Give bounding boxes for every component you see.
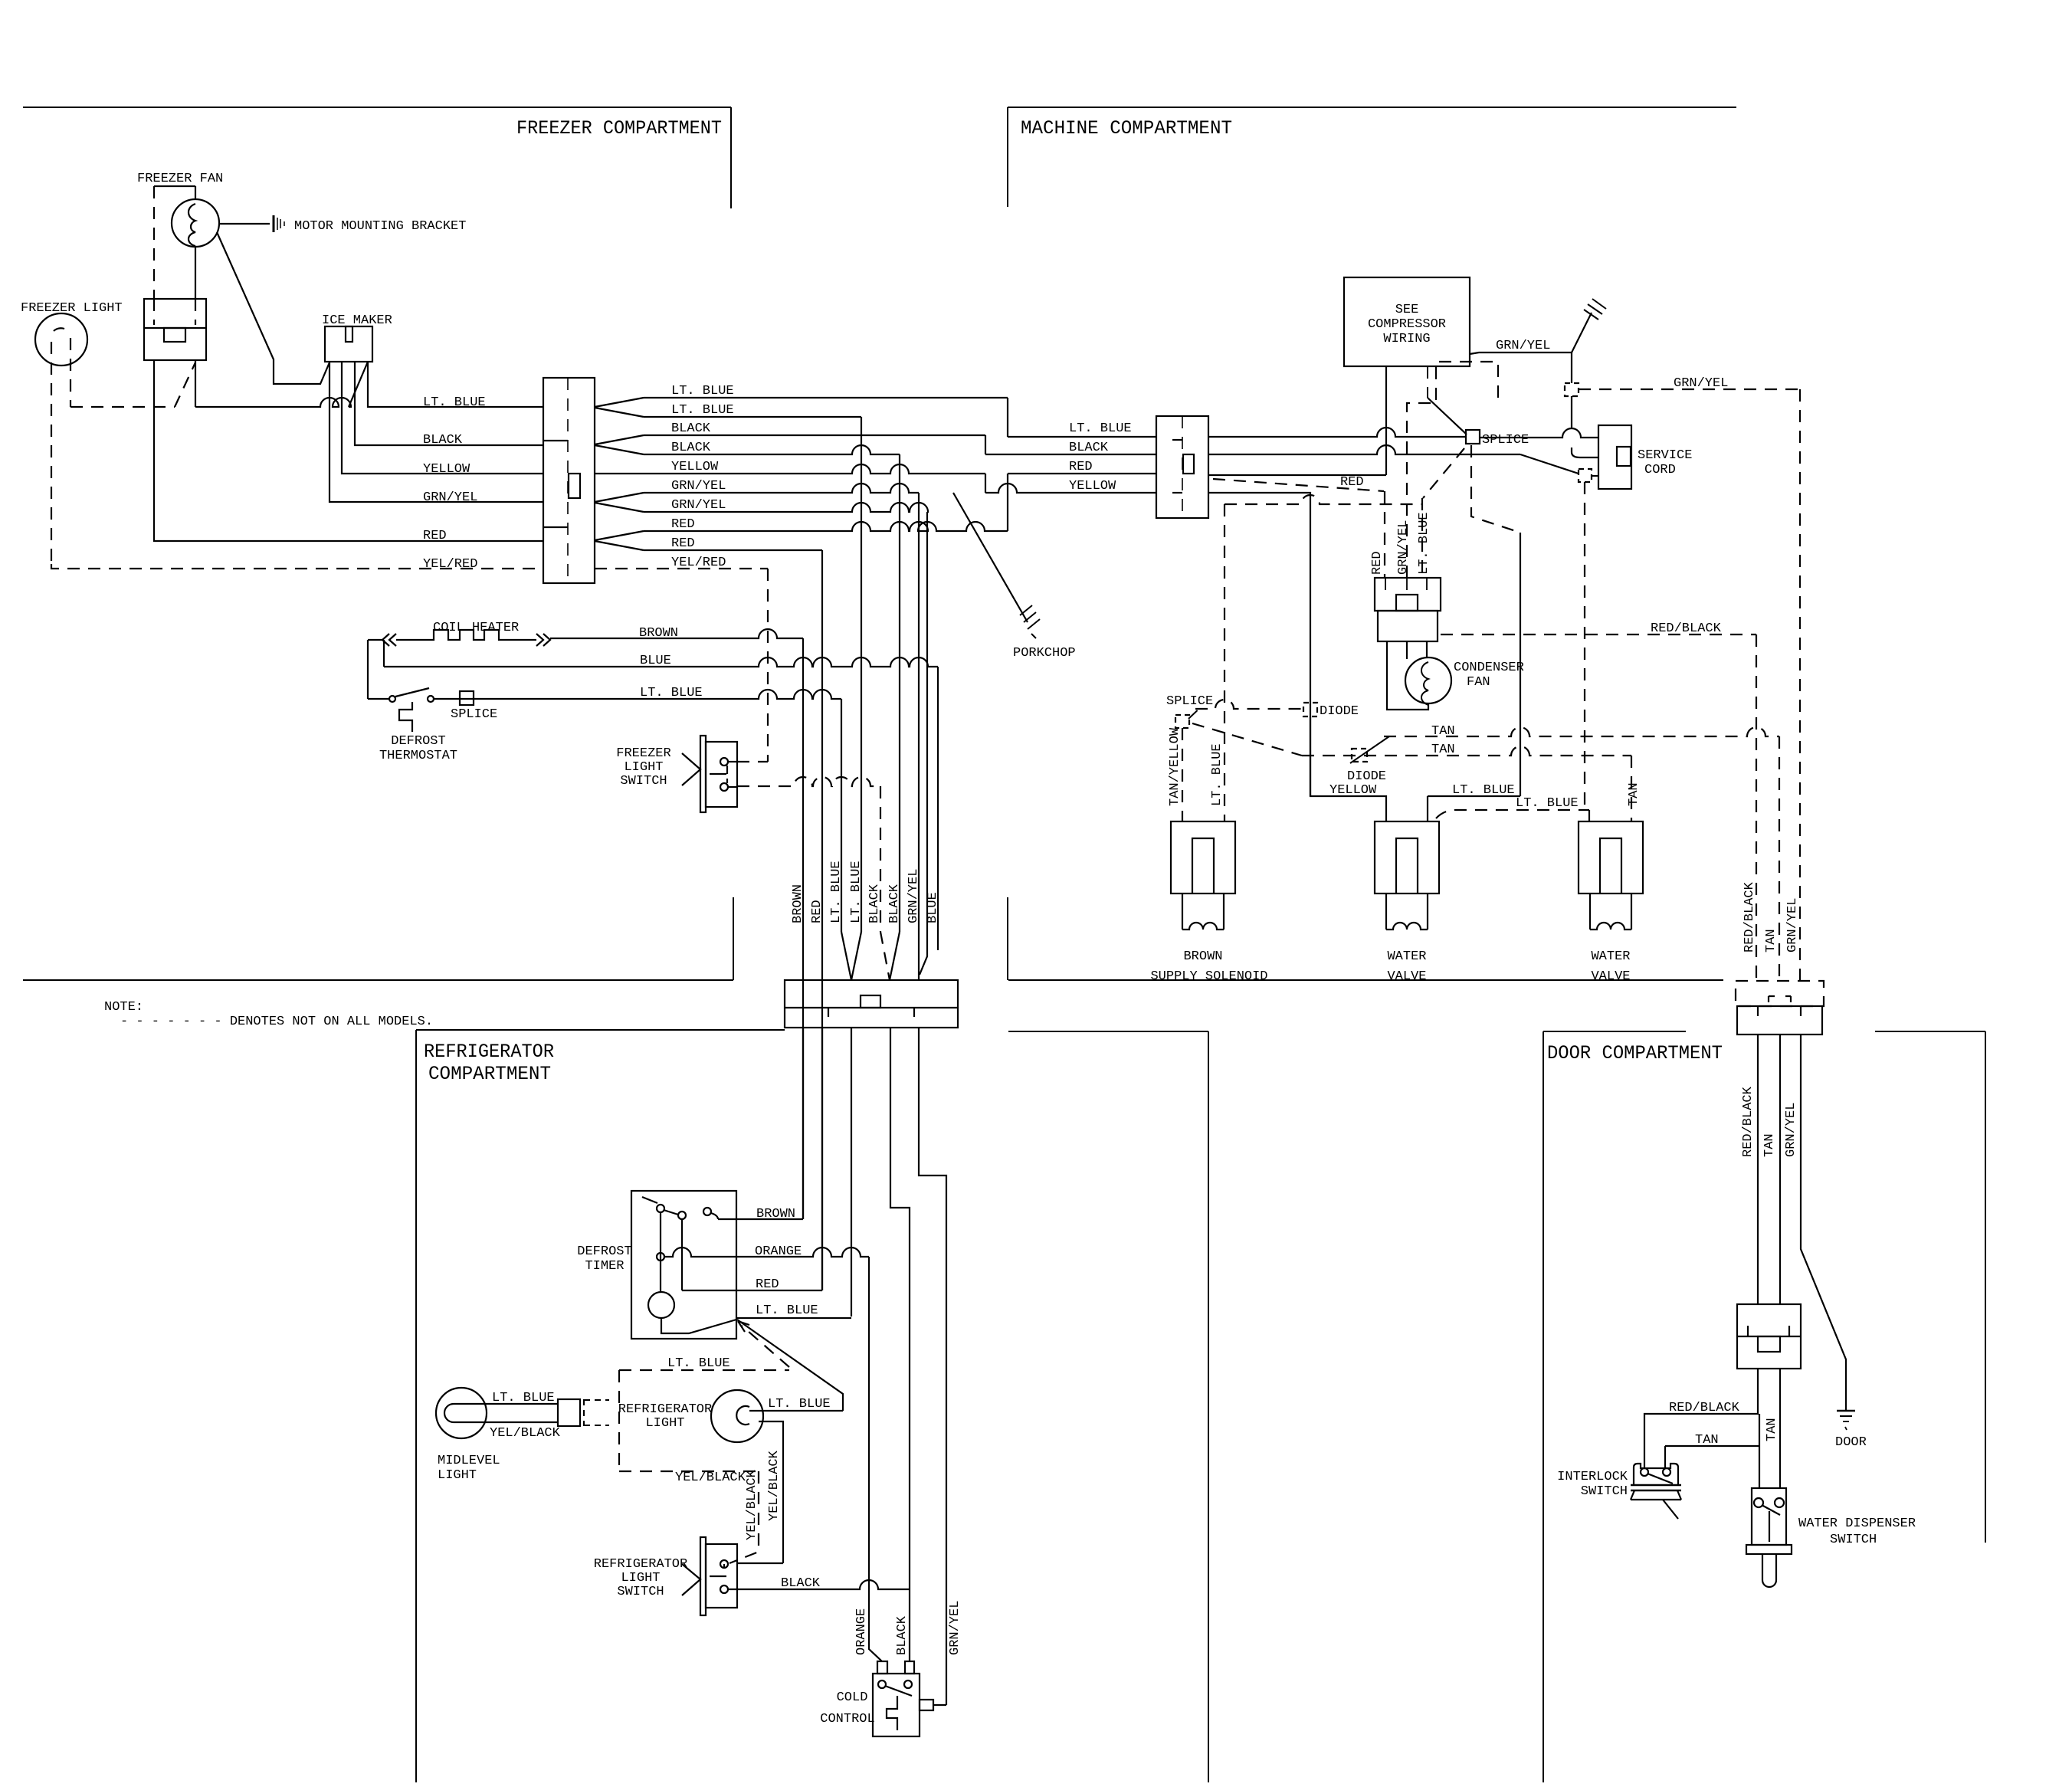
- svg-text:LIGHT: LIGHT: [438, 1468, 477, 1483]
- svg-text:YEL/BLACK: YEL/BLACK: [745, 1469, 759, 1540]
- wire compressor diagonal to splice: [1427, 366, 1428, 398]
- svg-text:MIDLEVEL: MIDLEVEL: [438, 1454, 500, 1468]
- defrost thermostat: [389, 696, 395, 702]
- door ground: [1837, 1410, 1855, 1412]
- wire yel/red dashed: [51, 564, 543, 569]
- svg-text:SWITCH: SWITCH: [617, 1585, 664, 1599]
- svg-text:RED: RED: [671, 517, 695, 532]
- wire yel/red to switch: [737, 761, 768, 762]
- svg-text:ORANGE: ORANGE: [755, 1244, 802, 1259]
- wire blue vertical: [937, 667, 939, 950]
- svg-text:DOOR COMPARTMENT: DOOR COMPARTMENT: [1547, 1042, 1723, 1064]
- wire compressor to red: [1385, 366, 1387, 475]
- wire grn/yel cold control: [933, 1704, 946, 1706]
- wire red/black door: [1757, 1034, 1759, 1304]
- wire black below: [890, 1028, 910, 1589]
- wire lt blue below: [851, 1028, 852, 1316]
- water valve 1: [1375, 821, 1439, 893]
- condenser fan: [1405, 657, 1451, 703]
- wire tan 1: [1384, 727, 1779, 736]
- wire grn/yel to service cord: [1572, 396, 1598, 457]
- svg-text:YEL/RED: YEL/RED: [671, 556, 726, 570]
- compressor relay: [1375, 578, 1441, 611]
- svg-text:CONDENSER: CONDENSER: [1454, 661, 1524, 675]
- svg-text:THERMOSTAT: THERMOSTAT: [379, 749, 457, 763]
- wire tan/yellow solenoid: [1182, 728, 1183, 821]
- wire grn/yel compressor: [1470, 352, 1572, 383]
- svg-text:TAN: TAN: [1431, 724, 1455, 739]
- ice maker pin 4 wire lt blue: [368, 362, 543, 407]
- svg-text:TAN: TAN: [1764, 929, 1779, 953]
- freezer fan wires top: [154, 185, 195, 187]
- wire red 2 vertical: [821, 550, 823, 1290]
- connector refrigerator harness: [785, 980, 958, 1028]
- refrigerator light switch: [700, 1537, 706, 1615]
- connector door 2: [1737, 1304, 1801, 1369]
- svg-text:RED/BLACK: RED/BLACK: [1651, 621, 1722, 636]
- wire yel/black into switch: [737, 1562, 783, 1564]
- svg-text:GRN/YEL: GRN/YEL: [1785, 898, 1800, 953]
- svg-text:RED: RED: [810, 900, 825, 923]
- svg-text:RED: RED: [671, 536, 695, 551]
- wire red pair merge: [595, 531, 644, 550]
- wire lt blue 2: [644, 416, 861, 418]
- svg-text:TIMER: TIMER: [585, 1259, 624, 1274]
- svg-text:DOOR: DOOR: [1835, 1435, 1867, 1450]
- wire grn/yel 1 vertical: [918, 493, 920, 980]
- svg-text:VALVE: VALVE: [1387, 969, 1426, 984]
- svg-text:SPLICE: SPLICE: [451, 707, 497, 722]
- wire lt blue valves: [1471, 445, 1520, 533]
- wire lt blue to light: [737, 1320, 843, 1411]
- wire black machine: [1208, 445, 1520, 454]
- wire black 2: [644, 445, 900, 454]
- refrigerator compartment border: [416, 1029, 785, 1031]
- ice maker pin 3 wire black: [355, 362, 543, 445]
- wire yellow to valve: [1310, 716, 1386, 821]
- wire grn/yel 2: [644, 503, 928, 512]
- wire grn/yel door: [1801, 1034, 1846, 1411]
- svg-text:GRN/YEL: GRN/YEL: [1396, 520, 1411, 575]
- wire black cold control: [909, 1589, 910, 1661]
- svg-text:SWITCH: SWITCH: [620, 774, 667, 789]
- wire lt blue thermostat: [368, 698, 389, 700]
- svg-text:SPLICE: SPLICE: [1482, 433, 1529, 448]
- svg-text:WATER: WATER: [1387, 949, 1426, 964]
- svg-text:BROWN: BROWN: [791, 884, 805, 923]
- svg-text:GRN/YEL: GRN/YEL: [1496, 339, 1550, 353]
- svg-text:GRN/YEL: GRN/YEL: [906, 869, 921, 923]
- svg-text:FAN: FAN: [1467, 675, 1490, 690]
- svg-text:WATER: WATER: [1591, 949, 1630, 964]
- wire red 1: [644, 522, 1008, 531]
- svg-text:LT. BLUE: LT. BLUE: [849, 861, 864, 923]
- wire red below: [821, 1028, 823, 1290]
- svg-text:WATER DISPENSER: WATER DISPENSER: [1798, 1516, 1916, 1531]
- splice machine: [1466, 430, 1480, 444]
- svg-text:DEFROST: DEFROST: [577, 1244, 631, 1259]
- svg-text:BLACK: BLACK: [1069, 441, 1109, 455]
- midlevel light: [436, 1388, 487, 1438]
- svg-text:LT. BLUE: LT. BLUE: [423, 395, 486, 410]
- svg-text:VALVE: VALVE: [1591, 969, 1630, 984]
- svg-text:LT. BLUE: LT. BLUE: [768, 1397, 831, 1412]
- wire grn/yel 1: [644, 484, 919, 493]
- svg-text:COIL HEATER: COIL HEATER: [433, 621, 519, 635]
- svg-text:GRN/YEL: GRN/YEL: [1674, 376, 1728, 391]
- svg-text:LT. BLUE: LT. BLUE: [1452, 783, 1515, 798]
- wire black switch: [728, 1580, 910, 1589]
- wire tan 2: [1302, 746, 1631, 756]
- wire yel/red right: [595, 568, 768, 569]
- machine compartment border: [1008, 107, 1736, 108]
- svg-text:GRN/YEL: GRN/YEL: [948, 1601, 962, 1655]
- svg-text:COMPARTMENT: COMPARTMENT: [428, 1063, 551, 1085]
- splice grn/yel: [1565, 383, 1579, 396]
- wire brown timer: [718, 1218, 803, 1220]
- svg-text:RED: RED: [423, 529, 447, 543]
- freezer fan connector: [144, 299, 206, 360]
- wire red/black to interlock: [1644, 1369, 1758, 1468]
- freezer light switch: [700, 736, 706, 812]
- svg-text:RED: RED: [1370, 551, 1385, 575]
- timer contact 1: [657, 1205, 664, 1212]
- wire black dashed from switch: [737, 777, 880, 786]
- svg-text:COLD: COLD: [837, 1690, 868, 1705]
- midlevel light connector: [558, 1399, 580, 1426]
- timer orange contact: [657, 1253, 664, 1261]
- svg-text:DIODE: DIODE: [1320, 704, 1359, 719]
- svg-text:GRN/YEL: GRN/YEL: [1784, 1103, 1798, 1157]
- svg-text:SUPPLY SOLENOID: SUPPLY SOLENOID: [1150, 969, 1267, 984]
- refrigerator light switch pointer: [682, 1564, 700, 1595]
- svg-text:LIGHT: LIGHT: [624, 760, 663, 775]
- wire grn/yel below: [919, 1028, 946, 1705]
- svg-text:SERVICE: SERVICE: [1638, 448, 1692, 463]
- wire lt blue pair merge: [595, 398, 644, 417]
- wire dashed splice2 diagonal: [1192, 723, 1302, 756]
- diode 1: [1303, 703, 1317, 716]
- wire lt blue light: [749, 1410, 843, 1412]
- wire lt blue dashed compressor: [1423, 448, 1464, 498]
- svg-text:RED: RED: [1340, 475, 1364, 490]
- svg-text:TAN/YELLOW: TAN/YELLOW: [1168, 727, 1182, 806]
- wire black 1: [644, 434, 985, 436]
- svg-text:TAN: TAN: [1627, 782, 1641, 806]
- svg-text:TAN: TAN: [1765, 1418, 1779, 1441]
- svg-text:YELLOW: YELLOW: [423, 462, 470, 477]
- svg-text:SPLICE: SPLICE: [1166, 694, 1213, 709]
- svg-text:YEL/BLACK: YEL/BLACK: [675, 1471, 746, 1485]
- wire brown below: [802, 1028, 804, 1219]
- wire yel/red vertical to switch: [767, 569, 769, 762]
- svg-text:RED: RED: [756, 1277, 779, 1292]
- svg-text:MACHINE COMPARTMENT: MACHINE COMPARTMENT: [1021, 117, 1232, 139]
- svg-text:LT. BLUE: LT. BLUE: [756, 1303, 818, 1318]
- svg-text:BROWN: BROWN: [639, 626, 678, 641]
- ground symbol grn/yel: [1572, 313, 1592, 352]
- wire lt blue dashed to solenoid: [1225, 495, 1422, 504]
- ice maker: [325, 326, 372, 362]
- svg-text:YEL/BLACK: YEL/BLACK: [490, 1426, 561, 1441]
- wire tan door: [1779, 1034, 1781, 1304]
- svg-text:LT. BLUE: LT. BLUE: [1417, 512, 1431, 575]
- wire lt blue 2 vertical: [861, 417, 862, 932]
- svg-text:FREEZER LIGHT: FREEZER LIGHT: [21, 301, 123, 316]
- cold control grn/yel stub: [920, 1700, 933, 1710]
- diode 2: [1352, 749, 1367, 762]
- connector machine harness: [1156, 416, 1208, 518]
- svg-text:REFRIGERATOR: REFRIGERATOR: [424, 1041, 554, 1063]
- svg-text:REFRIGERATOR: REFRIGERATOR: [618, 1402, 712, 1417]
- splice 2: [1175, 715, 1189, 728]
- wire red timer: [681, 1219, 683, 1290]
- svg-text:LT. BLUE: LT. BLUE: [1210, 743, 1225, 806]
- svg-text:CONTROL: CONTROL: [820, 1712, 874, 1726]
- wire lt blue machine: [1208, 428, 1466, 437]
- wire lt blue vertical: [841, 699, 842, 932]
- machine compartment bottom border: [1008, 979, 1723, 981]
- svg-text:BLACK: BLACK: [671, 421, 711, 436]
- svg-text:YEL/RED: YEL/RED: [423, 557, 477, 572]
- wire black pair merge: [595, 435, 644, 454]
- wire freezer fan red: [154, 360, 543, 541]
- connector door harness: [1736, 981, 1824, 1006]
- svg-text:MOTOR MOUNTING BRACKET: MOTOR MOUNTING BRACKET: [294, 219, 466, 234]
- freezer light wires: [51, 342, 52, 564]
- wire black 2 vertical: [899, 454, 900, 932]
- svg-text:- - - - - - - DENOTES NOT ON A: - - - - - - - DENOTES NOT ON ALL MODELS.: [120, 1015, 433, 1029]
- wire black conn1-2: [985, 454, 1156, 455]
- wire yel/black dashed: [619, 1471, 759, 1472]
- svg-text:PORKCHOP: PORKCHOP: [1013, 646, 1076, 661]
- condenser fan wires: [1387, 641, 1428, 710]
- svg-text:LT. BLUE: LT. BLUE: [829, 861, 844, 923]
- svg-text:LT. BLUE: LT. BLUE: [667, 1356, 730, 1371]
- svg-text:BLACK: BLACK: [887, 884, 902, 923]
- svg-text:LT. BLUE: LT. BLUE: [1516, 796, 1579, 811]
- wire yellow: [595, 464, 985, 474]
- ice maker pin 1 wire grn/yel: [329, 362, 543, 502]
- wire yel/black solid: [759, 1421, 783, 1563]
- wire lt blue dashed valve2: [1436, 810, 1589, 818]
- wire fan to ice maker: [217, 232, 329, 384]
- svg-text:RED/BLACK: RED/BLACK: [1741, 1086, 1756, 1157]
- wire freezer fan lt blue: [195, 360, 196, 407]
- svg-text:BLACK: BLACK: [867, 884, 882, 923]
- wire orange: [664, 1248, 869, 1257]
- svg-text:LT. BLUE: LT. BLUE: [671, 403, 734, 418]
- svg-text:DEFROST: DEFROST: [391, 734, 445, 749]
- svg-text:NOTE:: NOTE:: [104, 1000, 143, 1015]
- svg-text:SWITCH: SWITCH: [1830, 1533, 1877, 1547]
- timer contact 2: [678, 1212, 686, 1219]
- refrigerator light: [711, 1390, 763, 1442]
- motor mounting bracket: [219, 223, 270, 225]
- svg-text:BLACK: BLACK: [895, 1615, 910, 1655]
- wire red dashed branch: [1213, 479, 1384, 491]
- wire tan interlock: [1665, 1414, 1759, 1488]
- wire lt blue to service cord: [1480, 428, 1598, 438]
- svg-text:YELLOW: YELLOW: [671, 460, 719, 474]
- heater left end: [367, 640, 369, 699]
- splice service black: [1579, 469, 1592, 482]
- wire black converge: [880, 932, 890, 980]
- wire grn/yel dashed to door: [1579, 389, 1800, 390]
- svg-text:YELLOW: YELLOW: [1329, 783, 1377, 798]
- svg-text:BLACK: BLACK: [781, 1576, 821, 1591]
- brown supply solenoid: [1171, 821, 1235, 893]
- connector freezer harness: [543, 378, 595, 583]
- coil heater: [368, 639, 382, 641]
- svg-text:BROWN: BROWN: [1183, 949, 1222, 964]
- svg-text:RED/BLACK: RED/BLACK: [1669, 1401, 1740, 1415]
- svg-text:BLACK: BLACK: [671, 441, 711, 455]
- svg-text:LIGHT: LIGHT: [645, 1416, 684, 1431]
- wire brown heater: [550, 629, 803, 638]
- defrost timer: [631, 1191, 736, 1339]
- svg-text:FREEZER: FREEZER: [616, 746, 670, 761]
- wire tan dispenser: [1779, 1369, 1781, 1488]
- svg-text:YEL/BLACK: YEL/BLACK: [767, 1450, 782, 1521]
- svg-text:LT. BLUE: LT. BLUE: [640, 686, 703, 700]
- freezer compartment border: [23, 107, 731, 108]
- svg-text:GRN/YEL: GRN/YEL: [671, 498, 726, 513]
- svg-text:GRN/YEL: GRN/YEL: [671, 479, 726, 493]
- svg-text:GRN/YEL: GRN/YEL: [423, 490, 477, 505]
- wire lt blue timer: [736, 1317, 851, 1319]
- svg-text:TAN: TAN: [1695, 1433, 1719, 1448]
- svg-text:INTERLOCK: INTERLOCK: [1557, 1470, 1628, 1484]
- freezer fan motor: [172, 199, 219, 247]
- wire lt blue converge: [841, 932, 861, 980]
- water dispenser switch: [1752, 1488, 1786, 1545]
- splice freezer: [460, 691, 474, 705]
- svg-text:BLUE: BLUE: [926, 892, 940, 923]
- freezer light switch pointer: [682, 753, 700, 785]
- wire dashed splice to diode: [1195, 700, 1303, 709]
- door compartment border: [1543, 1031, 1686, 1032]
- timer contact 3: [703, 1208, 711, 1215]
- svg-text:CORD: CORD: [1644, 463, 1676, 477]
- freezer light: [35, 313, 87, 366]
- svg-text:SWITCH: SWITCH: [1581, 1484, 1628, 1499]
- wire yellow machine: [1208, 493, 1310, 796]
- wire red/black dashed: [1441, 634, 1756, 635]
- timer motor: [660, 1212, 661, 1292]
- svg-text:FREEZER COMPARTMENT: FREEZER COMPARTMENT: [516, 117, 722, 139]
- svg-text:DIODE: DIODE: [1347, 769, 1386, 784]
- wire blue heater: [384, 657, 938, 667]
- wire red machine: [1208, 474, 1386, 476]
- svg-text:REFRIGERATOR: REFRIGERATOR: [594, 1557, 687, 1572]
- wire lt blue conn1-2: [1008, 436, 1156, 438]
- wire lt blue valve1: [1428, 795, 1520, 797]
- ice maker pin 2 wire yellow: [342, 362, 543, 474]
- svg-text:RED: RED: [1069, 460, 1093, 474]
- svg-text:FREEZER FAN: FREEZER FAN: [137, 172, 223, 186]
- svg-text:YELLOW: YELLOW: [1069, 479, 1116, 493]
- svg-text:RED/BLACK: RED/BLACK: [1743, 881, 1757, 953]
- svg-text:LT. BLUE: LT. BLUE: [671, 384, 734, 398]
- svg-text:LIGHT: LIGHT: [621, 1571, 660, 1585]
- svg-text:TAN: TAN: [1762, 1133, 1777, 1157]
- wire grn/yel dashed compressor: [1407, 362, 1498, 578]
- svg-text:BLUE: BLUE: [640, 654, 671, 668]
- arrow lt blue dashed: [742, 1326, 789, 1367]
- wire lt blue 1: [644, 397, 1008, 398]
- svg-text:SEE: SEE: [1395, 303, 1419, 317]
- freezer compartment bottom border: [23, 979, 733, 981]
- service cord: [1598, 425, 1631, 489]
- wire brown vertical: [802, 638, 804, 1219]
- svg-text:ORANGE: ORANGE: [854, 1608, 869, 1655]
- svg-text:BLACK: BLACK: [423, 433, 463, 448]
- svg-text:BROWN: BROWN: [756, 1207, 795, 1221]
- porkchop leader: [953, 493, 1028, 622]
- svg-text:COMPRESSOR: COMPRESSOR: [1368, 317, 1446, 332]
- interlock switch: [1634, 1464, 1678, 1485]
- svg-text:LT. BLUE: LT. BLUE: [492, 1391, 555, 1405]
- see compressor wiring box: [1344, 277, 1470, 366]
- svg-text:WIRING: WIRING: [1383, 332, 1430, 346]
- wire grn/yel pair merge: [595, 493, 644, 512]
- cold control: [873, 1674, 920, 1736]
- water valve 2: [1579, 821, 1643, 893]
- svg-text:LT. BLUE: LT. BLUE: [1069, 421, 1132, 436]
- wire lt blue dashed midlevel: [619, 1369, 789, 1371]
- wire red 2: [644, 549, 822, 551]
- wire dashed below service cord: [1584, 482, 1585, 810]
- wire lt blue freezer: [195, 398, 351, 407]
- svg-text:TAN: TAN: [1431, 743, 1455, 757]
